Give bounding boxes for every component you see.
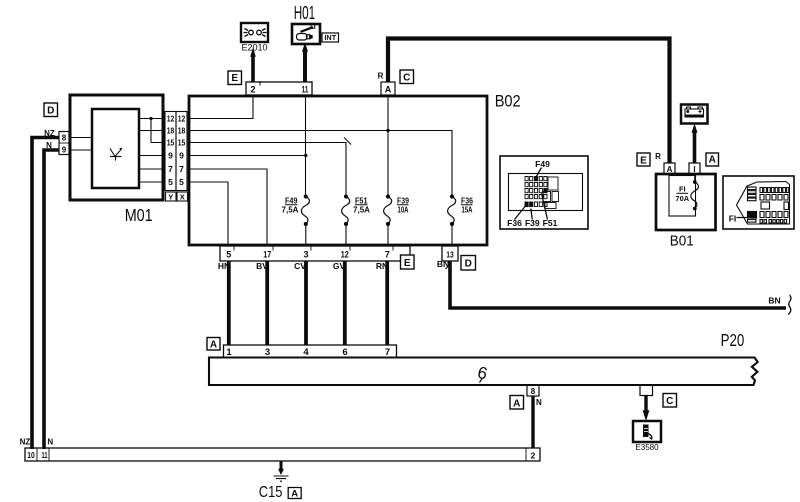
svg-text:A: A xyxy=(667,165,673,174)
svg-text:18: 18 xyxy=(178,126,186,136)
svg-text:9: 9 xyxy=(168,151,173,161)
svg-text:F49: F49 xyxy=(535,159,550,169)
svg-text:CV: CV xyxy=(294,261,306,271)
svg-text:4: 4 xyxy=(303,347,309,358)
svg-text:11: 11 xyxy=(302,85,309,95)
svg-text:F36: F36 xyxy=(461,197,473,206)
svg-text:E: E xyxy=(404,258,411,269)
svg-text:R: R xyxy=(655,152,661,161)
svg-text:7,5A: 7,5A xyxy=(282,206,299,215)
svg-text:F51: F51 xyxy=(355,197,368,206)
svg-text:12: 12 xyxy=(341,250,349,260)
svg-text:12: 12 xyxy=(178,114,186,124)
svg-text:7: 7 xyxy=(168,164,173,174)
svg-text:10A: 10A xyxy=(398,206,409,215)
svg-text:7,5A: 7,5A xyxy=(353,206,370,215)
svg-text:F39: F39 xyxy=(525,218,540,228)
svg-text:FI: FI xyxy=(729,214,737,224)
svg-text:15: 15 xyxy=(178,138,186,148)
svg-text:P20: P20 xyxy=(721,330,745,350)
svg-text:Y: Y xyxy=(168,193,173,202)
svg-text:A: A xyxy=(709,155,716,166)
svg-text:11: 11 xyxy=(42,450,48,460)
svg-text:A: A xyxy=(210,340,217,351)
svg-text:M01: M01 xyxy=(125,205,153,225)
svg-text:B01: B01 xyxy=(670,232,694,249)
svg-text:B02: B02 xyxy=(495,92,521,110)
svg-text:HN: HN xyxy=(218,261,230,271)
svg-text:F49: F49 xyxy=(285,197,298,206)
svg-text:RN: RN xyxy=(376,261,388,271)
svg-text:1: 1 xyxy=(226,347,232,358)
svg-text:2: 2 xyxy=(250,85,255,95)
svg-text:8: 8 xyxy=(531,387,536,396)
svg-text:6: 6 xyxy=(342,347,347,358)
svg-text:3: 3 xyxy=(303,250,308,260)
svg-text:8: 8 xyxy=(62,134,67,143)
svg-text:N: N xyxy=(46,141,52,150)
svg-text:7: 7 xyxy=(385,347,390,358)
svg-text:H01: H01 xyxy=(294,3,316,23)
svg-text:E3580: E3580 xyxy=(635,443,659,452)
svg-text:C: C xyxy=(666,396,673,407)
svg-text:10: 10 xyxy=(27,450,35,460)
svg-text:F39: F39 xyxy=(397,197,409,206)
svg-text:D: D xyxy=(47,106,54,117)
svg-text:N: N xyxy=(47,438,53,447)
svg-text:17: 17 xyxy=(263,250,271,260)
svg-text:70A: 70A xyxy=(675,194,689,203)
svg-text:5: 5 xyxy=(226,250,231,260)
svg-text:7: 7 xyxy=(385,250,390,260)
svg-text:I: I xyxy=(693,165,695,174)
svg-text:E: E xyxy=(640,156,647,167)
svg-text:D: D xyxy=(465,259,472,270)
svg-text:BV: BV xyxy=(256,261,268,271)
svg-text:F36: F36 xyxy=(507,218,522,228)
svg-text:12: 12 xyxy=(167,114,175,124)
svg-text:N: N xyxy=(536,398,542,407)
svg-text:C: C xyxy=(403,73,410,84)
svg-text:E: E xyxy=(231,73,238,84)
svg-text:BN: BN xyxy=(437,259,449,269)
svg-text:15A: 15A xyxy=(462,206,473,215)
svg-text:5: 5 xyxy=(168,177,173,187)
svg-text:E2010: E2010 xyxy=(241,43,267,53)
svg-text:NZ: NZ xyxy=(44,129,55,138)
svg-text:18: 18 xyxy=(167,126,175,136)
svg-text:A: A xyxy=(385,85,392,95)
svg-text:F51: F51 xyxy=(543,218,558,228)
svg-text:15: 15 xyxy=(167,138,175,148)
svg-text:13: 13 xyxy=(446,250,454,260)
svg-text:X: X xyxy=(180,193,185,202)
svg-text:BN: BN xyxy=(768,296,780,306)
svg-text:INT: INT xyxy=(324,33,336,42)
svg-text:9: 9 xyxy=(179,151,184,161)
svg-text:C15: C15 xyxy=(259,484,283,501)
svg-text:R: R xyxy=(378,72,384,81)
svg-text:A: A xyxy=(291,489,298,500)
svg-text:FI: FI xyxy=(679,185,686,194)
svg-text:NZ: NZ xyxy=(20,438,31,447)
svg-text:5: 5 xyxy=(179,177,184,187)
svg-text:2: 2 xyxy=(531,451,536,461)
svg-text:3: 3 xyxy=(265,347,270,358)
svg-text:A: A xyxy=(513,399,520,410)
svg-text:9: 9 xyxy=(62,146,67,155)
svg-text:6: 6 xyxy=(476,363,490,384)
svg-text:7: 7 xyxy=(179,164,184,174)
svg-text:GV: GV xyxy=(333,261,346,271)
